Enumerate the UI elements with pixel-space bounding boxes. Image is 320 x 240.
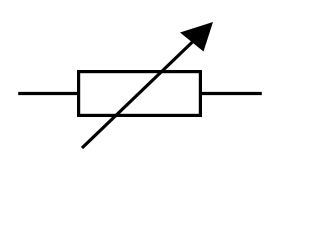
resistor body R1 (79, 72, 201, 116)
adjustment arrow shaft (82, 27, 208, 148)
left lead wire (18, 92, 79, 95)
right lead wire (200, 92, 262, 95)
variable resistor (rheostat) schematic symbol (0, 0, 299, 167)
arrowhead (180, 22, 213, 52)
